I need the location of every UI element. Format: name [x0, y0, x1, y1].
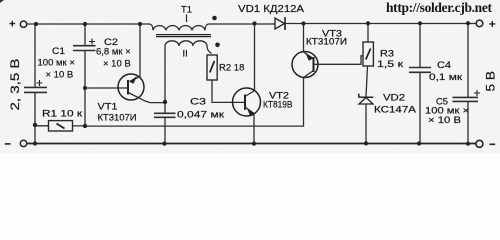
node VT1 base junction dot [83, 86, 87, 90]
transistor VT3 [292, 24, 347, 78]
transistor VT2 [233, 24, 293, 144]
winding I [149, 24, 209, 30]
node VT2 collector rail dot [252, 21, 256, 25]
node C3 ground dot [162, 142, 166, 146]
phase dot winding I [212, 16, 217, 21]
node -OUT terminal bottom-right [476, 140, 495, 147]
node +IN terminal top-left [10, 21, 27, 28]
node C4 ground dot [417, 141, 421, 145]
zener VD2 [359, 66, 417, 143]
wire VT1 emitter junction to rail (dot) [138, 22, 142, 26]
svg-text:× 10 В: × 10 В [46, 70, 74, 81]
svg-text:II: II [183, 49, 188, 60]
svg-text:КС147А: КС147А [374, 105, 417, 116]
winding II [165, 41, 212, 102]
node R3 rail dot [366, 21, 370, 25]
capacitor C2 [73, 24, 131, 126]
capacitor C3 [154, 97, 225, 144]
node C1 rail junction dot [34, 22, 38, 26]
node -IN terminal bottom-left [5, 140, 27, 146]
svg-text:× 10 В: × 10 В [428, 115, 461, 126]
svg-text:http://solder.cjb.net: http://solder.cjb.net [386, 0, 493, 15]
node C1 ground dot [33, 141, 37, 145]
svg-text:КТ3107И: КТ3107И [306, 37, 347, 48]
resistor R3 [363, 23, 404, 70]
svg-text:VD1 КД212А: VD1 КД212А [238, 3, 304, 15]
svg-text:C4: C4 [437, 60, 451, 71]
wire top rail left section [27, 23, 149, 25]
phase dot winding II [215, 43, 220, 48]
diode VD1 [238, 3, 304, 30]
capacitor C5 [425, 23, 480, 144]
capacitor C1 [24, 24, 75, 144]
node R1/C2 bus junction dot [83, 124, 87, 128]
core [156, 35, 211, 37]
wire VT1 base from C2/R1 node [85, 87, 127, 89]
svg-text:100 мк ×: 100 мк × [38, 58, 75, 69]
node C4 rail dot [418, 21, 422, 25]
svg-text:6,8 мк ×: 6,8 мк × [96, 47, 131, 58]
node C5 ground dot [466, 142, 470, 146]
svg-text:КТ3107И: КТ3107И [98, 113, 137, 124]
svg-text:2, 3,5 В: 2, 3,5 В [9, 58, 22, 110]
wire top rail right section: winding end to +OUT [209, 23, 476, 26]
node VT2 emitter ground dot [252, 142, 256, 146]
svg-text:T1: T1 [181, 5, 192, 16]
svg-text:C3: C3 [190, 97, 206, 108]
svg-text:0,047 мк: 0,047 мк [177, 110, 225, 121]
svg-text:КТ819В: КТ819В [263, 100, 293, 111]
capacitor C4 [409, 23, 463, 143]
wire bottom rail [27, 143, 476, 145]
svg-text:C1: C1 [52, 46, 65, 57]
transistor VT1 [98, 24, 165, 124]
node VT1 collector junction dot [163, 100, 167, 104]
svg-text:R2 18: R2 18 [219, 63, 244, 74]
node VT3 emitter rail dot [301, 21, 305, 25]
svg-text:× 10 В: × 10 В [103, 59, 131, 70]
node C5 rail dot [466, 21, 470, 25]
svg-text:R1 10 к: R1 10 к [42, 109, 83, 120]
svg-text:VT1: VT1 [98, 102, 118, 113]
wire VT1-base bus to VT3 collector [85, 77, 304, 126]
node +OUT terminal top-right [476, 20, 495, 27]
node R1/C1 junction dot [33, 123, 37, 127]
svg-text:VD2: VD2 [383, 93, 405, 104]
svg-text:0,1 мк: 0,1 мк [429, 72, 463, 83]
node C2 rail junction dot [83, 22, 87, 26]
svg-text:5 В: 5 В [484, 71, 498, 92]
transformer T1 [149, 5, 220, 102]
svg-text:1,5 к: 1,5 к [377, 59, 404, 70]
resistor R2 [207, 55, 244, 102]
wire VT3 base to R3 [314, 56, 364, 65]
svg-text:R3: R3 [380, 49, 394, 60]
resistor R1 [35, 109, 85, 132]
node VD2 ground dot [364, 141, 368, 145]
